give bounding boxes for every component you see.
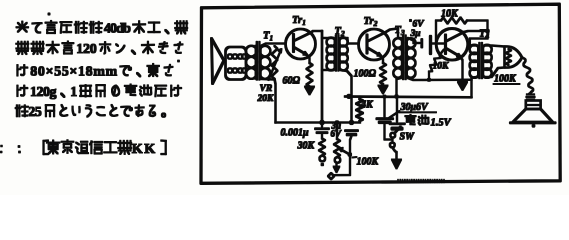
transformer T4 primary winding [470, 45, 479, 54]
transistor Tr3 base bar [444, 35, 446, 54]
earphone body [526, 101, 541, 110]
wire T3 primary top stub [398, 37, 401, 39]
transistor Tr3 collector stroke [446, 32, 465, 42]
transistor Tr3 emitter stroke with arrow [446, 48, 461, 57]
microphone cone [212, 39, 225, 84]
text line 3: size 80x55x18mm [17, 64, 172, 80]
earpiece cord squiggle [522, 58, 533, 93]
transformer T2 primary winding [327, 38, 336, 47]
wire T4 primary bottom to rail [472, 77, 479, 97]
resistor 30K zigzag [319, 139, 325, 156]
svg-text:4K: 4K [360, 100, 374, 111]
transformer T2 core [336, 36, 339, 71]
wire T3 secondary top to coupling cap [408, 38, 420, 43]
label battery 1.5V (denchi) [405, 115, 451, 129]
speck below 30K terminal [321, 163, 324, 166]
earpiece capsule outline [505, 46, 523, 67]
potentiometer 100K chain from rail [336, 123, 338, 140]
svg-text:6V: 6V [413, 20, 425, 30]
transistor Tr2 base bar [366, 35, 368, 53]
text line 5: about 25 yen per month [16, 105, 166, 120]
wire 30u cap bottom join battery chain [385, 124, 393, 140]
wire T3 primary bottom to rail [397, 78, 401, 97]
svg-text:K K: K K [132, 142, 156, 157]
svg-text:1.5V: 1.5V [431, 118, 452, 129]
transformer T3 primary winding [393, 38, 403, 48]
ground arrow below 100 ohm [382, 84, 384, 87]
wire T1 secondary top to Tr1 base [262, 44, 286, 46]
label 100K lower with leader [353, 156, 357, 159]
wire 10K to base node [440, 50, 445, 56]
transistor Tr3 circle [436, 29, 468, 61]
capacitor 3u 6V electrolytic plates [346, 131, 358, 135]
svg-text:30μ6V: 30μ6V [400, 102, 430, 113]
resistor 4K zigzag between rails [359, 97, 361, 100]
transistor Tr2 emitter stroke with arrow [367, 48, 381, 56]
svg-text:40db: 40db [104, 22, 131, 37]
bottom frame hatched texture [398, 180, 444, 183]
resistor 10K base bias diagonal zigzag [429, 55, 441, 72]
potentiometer 100K zigzag [334, 139, 340, 157]
capacitor 30u 6V chain from rail [384, 97, 386, 117]
transistor Tr2 collector stroke [367, 33, 385, 42]
transformer T2 secondary winding [339, 38, 348, 47]
wire 10K bottom leg [428, 72, 430, 80]
wire T2 primary taps [322, 38, 334, 70]
wire wiper node down and left to terminal [335, 155, 351, 176]
transformer T1 core [257, 42, 260, 80]
wire T4 primary top stub [470, 45, 477, 47]
battery cell plates 1.5V [390, 124, 405, 129]
svg-text:100Ω: 100Ω [354, 69, 377, 80]
svg-text:10K: 10K [441, 9, 459, 20]
ground arrow below switch [396, 152, 398, 161]
wire VR bottom down to lower rail [275, 79, 276, 123]
lower rail wire [276, 122, 361, 124]
wire feedback left leg [436, 21, 441, 44]
resistor 100K inside earpiece [506, 49, 511, 65]
svg-text:120g: 120g [30, 85, 57, 100]
potentiometer VR zigzag [272, 46, 278, 79]
circuit border frame [201, 4, 560, 183]
wire 3u cap bottom to wiper node [350, 136, 352, 155]
svg-text:3μ: 3μ [410, 29, 421, 39]
junction dot wiper node [348, 153, 352, 157]
capacitor 0.001u plates [316, 123, 329, 139]
battery cell wire from rail [396, 97, 398, 122]
svg-text:25: 25 [28, 105, 42, 120]
junction dot at upper rail left end [347, 94, 351, 98]
transformer T3 core [403, 36, 406, 80]
svg-text:100K: 100K [357, 157, 380, 168]
svg-text:6V: 6V [331, 129, 343, 139]
svg-text:SW: SW [400, 132, 416, 143]
svg-text:60Ω: 60Ω [283, 76, 301, 87]
junction dot at lower rail [349, 120, 353, 124]
wire cap to Tr3 base [431, 43, 446, 45]
wire Tr3 collector right [464, 31, 488, 32]
wire T4 secondary top to earpiece [484, 46, 504, 47]
microphone capsule body [226, 47, 247, 80]
wire T3 secondary bottom across to T4 bottom [408, 78, 472, 80]
resistor 60 ohm zigzag [307, 63, 313, 87]
transformer T3 secondary winding [406, 38, 416, 48]
wire Tr3 emitter down [460, 57, 463, 82]
resistor 100 ohm zigzag [380, 63, 386, 84]
transistor Tr2 circle [359, 29, 390, 60]
svg-text:100K: 100K [494, 74, 517, 85]
transistor Tr1 circle [286, 29, 316, 59]
wire collector elbow to T4 primary top [470, 31, 488, 46]
potentiometer 100K wiper arrow [340, 149, 350, 155]
transformer T1 primary winding [246, 46, 257, 57]
wire down to lower rail [351, 97, 353, 123]
capacitor 30u 6V plates [377, 119, 393, 123]
wire T1 secondary bottom to VR [262, 78, 275, 81]
junction dot collector line at lower rail [320, 120, 324, 124]
potentiometer VR wiper arrow [269, 51, 281, 80]
wire Tr1 collector to T2 [311, 31, 322, 33]
resistor 10K feedback zigzag [441, 18, 467, 24]
potentiometer 100K terminal circle [335, 157, 341, 163]
ground arrow below Tr3 emitter [462, 81, 464, 84]
wire feedback right leg [467, 21, 488, 32]
svg-text:80×55×18mm: 80×55×18mm [30, 65, 117, 80]
svg-text:120: 120 [76, 42, 97, 57]
svg-text:10K: 10K [433, 62, 450, 72]
ground arrow below 60 ohm [309, 87, 311, 89]
junction dots on upper rail [383, 95, 398, 98]
microphone capsule coils [228, 54, 247, 73]
30K terminal circle [320, 156, 326, 162]
text line 2: max sound 120 phon [16, 42, 182, 58]
svg-text:20K: 20K [257, 94, 275, 104]
wire T2 secondary bottom down [341, 70, 352, 97]
transistor Tr1 emitter stroke with arrow [294, 47, 307, 55]
earphone horn base line [511, 122, 556, 124]
wire Tr2 emitter down [381, 56, 384, 64]
arrow under 100K pot [336, 163, 338, 168]
terminal diamond [328, 173, 334, 179]
transformer T4 core [479, 43, 482, 78]
text line 6: Tokyo Tsushin Kogyo KK [44, 140, 166, 157]
svg-text:0.001μ: 0.001μ [281, 128, 310, 139]
svg-text:30K: 30K [297, 141, 316, 152]
upper rail wire [345, 96, 472, 99]
text line 4: weight 120g battery cost [17, 85, 181, 101]
earphone neck coil [527, 92, 535, 100]
earphone horn flare [513, 109, 553, 122]
wire Tr2 collector to T3 primary [385, 29, 398, 39]
text line 1: sound pressure gain 40db [17, 21, 188, 37]
wire T4 secondary bottom to earpiece [484, 68, 504, 78]
stray ink specks [0, 13, 179, 153]
junction dot collector-feedback [486, 29, 490, 33]
transistor Tr1 base bar [292, 35, 294, 52]
switch SW circles and lever [390, 133, 395, 138]
transistor Tr1 collector stroke [294, 33, 312, 42]
wire Tr1 emitter down [307, 55, 310, 64]
wire switch to ground [392, 147, 396, 152]
capacitor 3u 6V plates [422, 37, 431, 54]
wire T2 secondary top to Tr2 base [341, 38, 359, 44]
svg-text:VR: VR [260, 84, 273, 94]
wire collector node down the page (T2 primary feed) [321, 31, 323, 123]
transformer T4 secondary winding [482, 45, 491, 54]
svg-text:1: 1 [70, 85, 77, 100]
transformer T1 secondary winding [260, 46, 271, 57]
